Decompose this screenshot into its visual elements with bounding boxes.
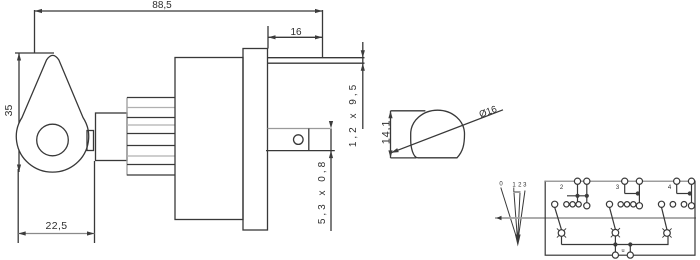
bottom bus wire bbox=[562, 236, 669, 245]
dim 22.5 dimension line bbox=[18, 233, 94, 235]
wiper line position 2 bbox=[518, 193, 520, 240]
middle terminal blade end line bbox=[308, 129, 310, 151]
svg-text:88,5: 88,5 bbox=[152, 0, 172, 11]
dim 22.5 extension line left bbox=[17, 169, 19, 243]
wiper line position 3 bbox=[518, 191, 525, 241]
group1 link vertical a bbox=[577, 181, 579, 204]
dim 16 extension line left bbox=[267, 26, 269, 49]
group1 row contact 3 bbox=[570, 202, 575, 207]
group1 junction dot a bbox=[575, 194, 579, 198]
svg-text:5,3 x 0,8: 5,3 x 0,8 bbox=[317, 159, 328, 224]
group2 link vertical b bbox=[638, 181, 640, 206]
middle terminal blade hole bbox=[294, 135, 304, 145]
dim 88.5 arrow right bbox=[315, 9, 323, 13]
dim 14.1 arrow bottom bbox=[388, 150, 392, 158]
bottom terminal a bbox=[612, 252, 618, 258]
schematic box bbox=[545, 181, 695, 255]
group3 top contact b bbox=[688, 178, 694, 184]
group1 row contact 5 bbox=[584, 203, 590, 209]
bottom terminal b bbox=[627, 252, 633, 258]
group2 link horizontal bbox=[625, 193, 640, 195]
dim 5.3x0.8 arrow up bbox=[329, 151, 333, 159]
group1 link vertical b bbox=[586, 181, 588, 206]
group1 row contact 2 bbox=[564, 202, 569, 207]
wiper arrow bbox=[515, 235, 521, 247]
group3 row contact 1 bbox=[658, 201, 664, 207]
group1 row contact 1 bbox=[552, 201, 558, 207]
group1 row contact 4 bbox=[576, 202, 581, 207]
knurled nut rib line 3 bbox=[127, 117, 175, 119]
top terminal blade lower edge bbox=[268, 62, 365, 64]
group3 mid to bus stub bbox=[614, 236, 616, 245]
mounting flange bbox=[243, 49, 268, 231]
group2 mid contact bbox=[611, 228, 620, 237]
wiper line position 1 bbox=[514, 193, 518, 240]
dim 1.2x9.5 arrow down bbox=[361, 50, 365, 58]
dim 35 arrow bottom bbox=[17, 165, 21, 173]
dim 1.2x9.5 dimension line bbox=[362, 42, 364, 129]
dim 5.3x0.8 arrow down bbox=[329, 121, 333, 129]
group2 tail wire bbox=[610, 207, 616, 229]
knurled nut rib line 9 bbox=[127, 174, 175, 176]
group3 tail wire bbox=[662, 207, 668, 230]
group2 row contact 5 bbox=[636, 203, 642, 209]
common feed line (gray) bbox=[495, 217, 696, 219]
group1 top contact a bbox=[574, 178, 580, 184]
switch body bbox=[175, 58, 243, 220]
hub nub between knob and shaft bbox=[87, 131, 94, 151]
group2 junction dot bbox=[636, 191, 640, 195]
lever knob (teardrop) bbox=[16, 55, 88, 172]
knurled nut rib line 7 bbox=[127, 155, 175, 157]
shaft bushing bbox=[96, 113, 128, 161]
knurled nut rib line 5 bbox=[127, 133, 175, 135]
bus junction dot a bbox=[613, 242, 617, 246]
svg-text:1,2 x 9,5: 1,2 x 9,5 bbox=[348, 82, 359, 147]
group1 junction dot b bbox=[585, 194, 589, 198]
front view knob outline bbox=[411, 110, 465, 158]
svg-text:14,1: 14,1 bbox=[381, 120, 393, 145]
svg-text:16: 16 bbox=[290, 27, 302, 38]
middle terminal blade lower edge bbox=[266, 150, 335, 152]
dim 22.5 extension line right bbox=[94, 161, 96, 243]
group3 row contact 3 bbox=[681, 202, 687, 208]
group1 mid contact bbox=[557, 228, 566, 237]
group3 row contact 5 bbox=[688, 203, 694, 209]
dim 22.5 arrow right bbox=[87, 231, 95, 235]
dim 14.1 extension line bottom bbox=[391, 157, 417, 159]
knurled nut rib line 6 bbox=[127, 145, 175, 147]
wiper bracket bbox=[514, 188, 521, 193]
group2 top contact a bbox=[622, 178, 628, 184]
knob hole bbox=[37, 124, 69, 156]
knurled nut rib line 4 bbox=[127, 124, 175, 126]
knurled nut left edge bbox=[126, 98, 128, 176]
bus junction dot b bbox=[628, 242, 632, 246]
group3 top contact a bbox=[674, 178, 680, 184]
group3 link horizontal bbox=[677, 193, 692, 195]
group2 row contact 4 bbox=[631, 202, 636, 207]
dim 16 arrow left bbox=[268, 35, 276, 39]
dim 35 arrow top bbox=[17, 53, 21, 61]
knurled nut rib line 1 bbox=[127, 97, 175, 99]
group1 link horizontal bbox=[567, 195, 587, 197]
dim 14.1 arrow top bbox=[388, 111, 392, 119]
svg-text:u: u bbox=[621, 248, 624, 254]
dim 22.5 arrow left bbox=[18, 231, 26, 235]
dia 16 leader arrow bbox=[391, 148, 399, 153]
common feed arrow tick bbox=[497, 216, 502, 220]
middle terminal blade upper edge bbox=[268, 128, 331, 130]
group1 top contact b bbox=[584, 178, 590, 184]
group2 row contact 1 bbox=[606, 201, 612, 207]
dim 16 dimension line bbox=[268, 36, 323, 38]
dim 88.5 extension line right (shared with dim 16) bbox=[322, 10, 324, 58]
dim 35 dimension line bbox=[18, 53, 20, 172]
group2 link vertical a bbox=[624, 181, 626, 193]
dim 5.3x0.8 dimension line bbox=[330, 129, 332, 232]
svg-text:22,5: 22,5 bbox=[45, 220, 67, 232]
wiper line position 0 bbox=[501, 188, 518, 241]
group3 junction dot bbox=[688, 191, 692, 195]
bottom terminal stub b bbox=[629, 245, 631, 253]
group3 mid contact bbox=[662, 228, 671, 237]
group3 link vertical a bbox=[676, 181, 678, 193]
group2 row contact 3 bbox=[624, 202, 629, 207]
dim 88.5 dimension line bbox=[35, 10, 323, 12]
dim 1.2x9.5 arrow up bbox=[361, 63, 365, 70]
group2 top contact b bbox=[636, 178, 642, 184]
dim 88.5 arrow left bbox=[35, 9, 43, 13]
knurled nut rib line 8 bbox=[127, 164, 175, 166]
dim 14.1 extension line top bbox=[391, 110, 426, 112]
group2 row contact 2 bbox=[618, 202, 623, 207]
group1 tail wire bbox=[555, 207, 562, 230]
group3 link vertical b bbox=[691, 181, 693, 206]
dim 88.5 extension line left bbox=[34, 10, 36, 53]
dim 16 arrow right bbox=[315, 35, 323, 39]
svg-text:35: 35 bbox=[3, 105, 15, 117]
dim 14.1 dimension line bbox=[390, 111, 392, 158]
bottom terminal stub a bbox=[614, 245, 616, 253]
group3 row contact 2 bbox=[670, 202, 676, 208]
box top edge gray overlay bbox=[545, 180, 695, 182]
knurled nut rib line 2 bbox=[127, 107, 175, 109]
group1 drop wire bbox=[561, 236, 563, 244]
top terminal blade upper edge bbox=[268, 57, 365, 59]
dia 16 leader line bbox=[391, 110, 503, 153]
knob top extension line bbox=[15, 52, 54, 54]
